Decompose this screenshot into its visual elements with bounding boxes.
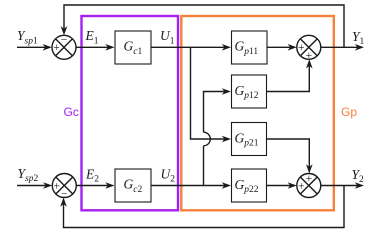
svg-text:−: − <box>61 35 68 47</box>
svg-text:+: + <box>298 42 305 54</box>
wire: Gp22 output into S4 <box>267 182 297 189</box>
wire: output Y1 <box>321 44 364 51</box>
wire: U2 branch up to Gp12 with hop over Gp21 input <box>204 88 232 185</box>
wire: Gp21 output down into S4 top <box>267 139 313 174</box>
wire: Y1 feedback to S1 (top) <box>61 5 344 47</box>
svg-text:+: + <box>298 180 305 192</box>
svg-text:Gc: Gc <box>64 105 79 119</box>
summing junction S3 <box>52 174 76 201</box>
block Gp22 <box>232 169 267 202</box>
wire: U2 from Gc2 to Gp22 <box>151 182 231 189</box>
svg-text:+: + <box>53 42 60 54</box>
wire: Gp12 output up into S2 bottom <box>267 59 313 91</box>
block Gp11 <box>232 31 268 64</box>
svg-text:+: + <box>306 173 313 185</box>
summing junction S1 <box>52 35 76 60</box>
summing junction S4 <box>297 173 321 198</box>
wire: error E2 from S3 to Gc2 <box>76 182 114 189</box>
svg-text:−: − <box>61 188 68 200</box>
wire: Y2 feedback to S3 (bottom) <box>60 186 344 228</box>
controller group box Gc <box>82 16 179 210</box>
wire: setpoint Ysp2 input into S3 <box>17 182 52 189</box>
summing junction S2 <box>297 35 321 62</box>
wire: Gp11 output into S2 <box>267 44 297 51</box>
wire: setpoint Ysp1 input into S1 <box>17 44 52 51</box>
wire: error E1 from S1 to Gc1 <box>76 44 115 51</box>
block Gc1 <box>115 31 151 64</box>
process group box Gp <box>181 16 333 210</box>
wire: U1 from Gc1 to Gp11 <box>151 44 231 51</box>
svg-text:+: + <box>306 50 313 62</box>
block Gc2 <box>115 169 151 202</box>
block Gp12 <box>232 75 267 108</box>
svg-text:Gp: Gp <box>341 105 357 119</box>
wire: output Y2 <box>321 182 364 189</box>
block Gp21 <box>232 123 267 156</box>
svg-text:+: + <box>54 180 61 192</box>
wire: U1 branch down to Gp21 <box>191 47 232 142</box>
